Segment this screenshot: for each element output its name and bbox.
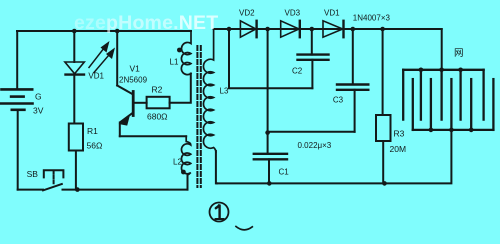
polarity dot L2 [181, 170, 186, 175]
wire secondary bottom rail [217, 130, 452, 184]
svg-text:VD3: VD3 [285, 9, 301, 18]
capacitor C2 [311, 29, 313, 55]
battery G [1, 89, 33, 109]
node R3 bottom [382, 181, 387, 186]
wire emitter horizontal [120, 135, 186, 137]
svg-text:V1: V1 [130, 63, 141, 73]
svg-text:C1: C1 [279, 168, 290, 177]
inductor L2 [181, 136, 190, 175]
wire battery to bottom rail [17, 110, 19, 190]
wire R3 to bottom rail [382, 141, 384, 183]
capacitor C1 [254, 153, 287, 155]
diode VD3 [281, 21, 300, 37]
svg-text:3V: 3V [33, 106, 44, 116]
wire left vertical to battery [16, 31, 18, 89]
node junction R1 bottom [75, 187, 80, 192]
resistor R3 [376, 115, 391, 141]
wire collector vertical [116, 31, 118, 86]
wire R1 to bottom rail [75, 151, 77, 190]
svg-text:R3: R3 [394, 129, 405, 139]
wire bottom rail left [18, 189, 43, 191]
svg-text:ezepHome.NET: ezepHome.NET [74, 12, 218, 34]
svg-text:680Ω: 680Ω [147, 112, 168, 122]
resistor R2 [147, 97, 170, 109]
node A [227, 27, 232, 32]
node grid top bus junctions [419, 68, 424, 73]
transistor V1 [117, 86, 133, 95]
node C3 top [351, 27, 356, 32]
node junction LED top [72, 29, 77, 34]
svg-text:VD1: VD1 [88, 72, 104, 81]
LED arrows [89, 46, 112, 73]
wire LED to R1 [73, 75, 75, 124]
node VD3-VD1 [310, 27, 315, 32]
svg-text:1N4007×3: 1N4007×3 [353, 14, 391, 23]
grid bottom bus [413, 129, 494, 131]
wire L2 to bottom rail [187, 174, 189, 190]
switch SB blade [43, 184, 62, 190]
wire VD2-VD3 drop to C1 [267, 29, 269, 154]
diode VD1 [323, 21, 344, 37]
svg-text:VD2: VD2 [239, 9, 255, 18]
wire R3 drop [382, 29, 384, 115]
wire secondary top rail [214, 28, 442, 30]
resistor R1 [69, 124, 83, 151]
wire 0.022 bus [268, 131, 355, 133]
svg-text:0.022μ×3: 0.022μ×3 [298, 141, 332, 150]
tilde [236, 227, 252, 230]
switch SB bracket [44, 170, 64, 177]
svg-text:L2: L2 [173, 158, 182, 167]
svg-text:2N5609: 2N5609 [119, 75, 148, 84]
wire top rail primary [17, 30, 191, 32]
node VD2-VD3 [265, 27, 270, 32]
grid teeth top comb [402, 70, 404, 120]
svg-text:网: 网 [454, 48, 464, 59]
diode VD2 [240, 21, 256, 37]
transformer core dashed [196, 46, 198, 187]
polarity dot L1 [177, 48, 182, 53]
wire emitter down [119, 123, 121, 137]
svg-text:G: G [35, 92, 42, 102]
wire grid feed [441, 29, 443, 70]
wire LED branch upper [73, 31, 75, 62]
svg-text:L1: L1 [170, 58, 179, 67]
svg-text:C2: C2 [292, 67, 303, 76]
wire base to R2 [134, 102, 147, 104]
svg-text:56Ω: 56Ω [87, 141, 103, 151]
capacitor C3 [352, 29, 354, 85]
wire bottom rail mid [63, 189, 188, 191]
grid teeth bottom comb [412, 79, 414, 130]
wire L3 bottom to rail [215, 151, 218, 183]
node R3 top rail [380, 27, 385, 32]
inductor L3 secondary [203, 29, 215, 152]
label figure 1 glyph [215, 205, 224, 219]
node C1 bottom [267, 181, 272, 186]
switch SB actuator dashed [53, 171, 55, 185]
svg-text:L3: L3 [220, 87, 229, 96]
inductor L1 [181, 31, 191, 75]
svg-text:R1: R1 [87, 126, 98, 136]
svg-text:R2: R2 [152, 85, 163, 95]
node junction collector top [115, 29, 120, 34]
wire node A drop [229, 29, 312, 88]
LED VD1 [65, 62, 84, 74]
svg-text:VD1: VD1 [324, 9, 340, 18]
svg-text:SB: SB [27, 169, 39, 179]
wire R2 right to L1 [170, 74, 191, 103]
grid top bus [403, 69, 483, 71]
node C1 top [265, 130, 270, 135]
svg-text:20M: 20M [390, 144, 407, 154]
figure number circle [210, 203, 229, 222]
svg-text:C3: C3 [333, 96, 344, 105]
node grid bottom bus junctions [429, 128, 434, 133]
